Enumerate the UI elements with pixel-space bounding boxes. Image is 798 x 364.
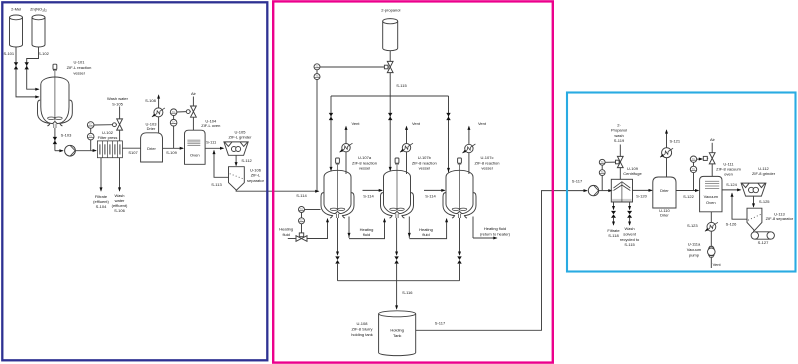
svg-text:ZIF-8 Slurry: ZIF-8 Slurry [351, 327, 372, 332]
vent vessel b [406, 127, 408, 174]
vent vessel a [345, 127, 347, 174]
svg-text:S-105: S-105 [112, 101, 123, 106]
svg-text:U-107b: U-107b [418, 155, 432, 160]
svg-text:Vacuum: Vacuum [687, 247, 702, 252]
svg-text:TC: TC [692, 158, 695, 161]
wire S-117 to panel 3 [416, 191, 587, 331]
svg-text:(return to heater): (return to heater) [480, 232, 511, 237]
svg-text:TC: TC [315, 65, 318, 68]
svg-text:S-114: S-114 [425, 193, 436, 198]
svg-text:Propanol: Propanol [611, 128, 627, 133]
svg-text:Holding: Holding [390, 327, 404, 332]
wire wash water effluent S-106 [119, 158, 121, 191]
svg-text:Filtrate: Filtrate [607, 228, 620, 233]
svg-text:holding tank: holding tank [351, 332, 373, 337]
instrument TC loop 2-propanol [314, 64, 320, 70]
svg-text:Air: Air [191, 91, 197, 96]
control valve S-115 [387, 61, 393, 67]
wire drop to vessel a [330, 96, 332, 171]
svg-text:Oven: Oven [190, 153, 200, 158]
svg-text:TC: TC [172, 121, 175, 124]
svg-text:oven: oven [724, 171, 733, 176]
svg-text:S-109: S-109 [166, 150, 177, 155]
svg-text:S-114: S-114 [296, 193, 307, 198]
svg-text:TC: TC [89, 135, 92, 138]
svg-text:U-107a: U-107a [358, 155, 372, 160]
svg-text:S107: S107 [128, 150, 138, 155]
svg-text:S-116: S-116 [402, 290, 413, 295]
svg-text:Vent: Vent [412, 121, 421, 126]
vent vessel c [468, 127, 470, 174]
wire separator to conveyor [753, 231, 755, 232]
valve drop c [446, 113, 450, 120]
svg-text:S-127: S-127 [758, 240, 769, 245]
svg-text:Vent: Vent [478, 121, 487, 126]
reactor U-107b ZIF-8 reaction vessel [395, 158, 399, 163]
wire S-112 grinder to separator [235, 155, 237, 165]
wire S-114 b to c [424, 189, 445, 191]
svg-text:S-117: S-117 [435, 320, 446, 325]
svg-text:S-103: S-103 [61, 132, 72, 137]
wire S-122 drier to vacuum oven [676, 190, 698, 192]
control valve air vacuum oven [709, 153, 715, 159]
svg-text:ZIF-8 reaction: ZIF-8 reaction [352, 160, 377, 165]
wire separator product to panel 2 (S-114) [236, 190, 318, 191]
svg-text:TC: TC [692, 168, 695, 171]
heating fluid return [472, 217, 474, 239]
wire S-125 grinder to separator [753, 196, 755, 207]
svg-text:TC: TC [315, 75, 318, 78]
reactor U-101 ZIF-L reaction vessel [53, 64, 57, 69]
svg-text:TC: TC [89, 124, 92, 127]
wire drop to vessel c [448, 96, 450, 172]
control valve air [191, 106, 197, 112]
instrument TC loop wash [599, 159, 605, 165]
panel border ZIF-8 reaction (magenta) [273, 1, 553, 362]
svg-text:S-115: S-115 [396, 83, 407, 88]
svg-text:S-117: S-117 [572, 178, 583, 183]
svg-text:ZIF-L oven: ZIF-L oven [201, 123, 220, 128]
heat exchanger on S-121 [662, 148, 672, 158]
svg-text:S-102: S-102 [38, 51, 49, 56]
svg-text:vessel: vessel [419, 166, 430, 171]
instrument TC loop heating [299, 207, 305, 213]
svg-text:Drier: Drier [147, 126, 156, 131]
svg-text:vessel: vessel [73, 70, 84, 75]
wire pump to centrifuge [599, 190, 612, 192]
svg-text:separator: separator [247, 178, 265, 183]
svg-text:S-113: S-113 [211, 182, 222, 187]
svg-text:pump: pump [689, 252, 700, 257]
svg-text:ZIF-L: ZIF-L [251, 173, 261, 178]
drier U-110 [653, 177, 676, 208]
panel border ZIF-8 finishing (cyan) [567, 93, 796, 272]
svg-text:2-MeI: 2-MeI [11, 6, 21, 11]
svg-text:Vacuum: Vacuum [704, 194, 719, 199]
svg-text:S-101: S-101 [3, 51, 14, 56]
svg-text:U-107c: U-107c [481, 155, 494, 160]
svg-text:2-propanol: 2-propanol [381, 7, 400, 12]
wire S-124 oven to grinder [722, 189, 740, 191]
instrument TC loop vacuum oven [690, 156, 696, 162]
wire S-111 oven to grinder [205, 147, 223, 149]
wire pump to filter press [75, 150, 96, 152]
separator U-106 ZIF-L separator [229, 167, 245, 191]
wire vessel outlets to collector S-116 [337, 218, 339, 255]
valve drop a [329, 113, 333, 120]
svg-text:S-104: S-104 [96, 204, 107, 209]
wire tank1 to reactor [16, 47, 39, 97]
svg-text:S-111: S-111 [206, 140, 217, 145]
svg-text:U-111a: U-111a [688, 242, 701, 247]
wire S-120 centrifuge to drier [633, 189, 652, 191]
svg-text:S-108: S-108 [145, 98, 156, 103]
svg-text:Filter press: Filter press [98, 135, 118, 140]
panel border ZIF-L (blue) [2, 2, 267, 360]
svg-text:ZIF-L grinder: ZIF-L grinder [229, 134, 253, 139]
svg-text:ZIF-8 reaction: ZIF-8 reaction [475, 160, 500, 165]
heat exchanger on S-123 [707, 222, 716, 231]
svg-text:TC: TC [300, 219, 303, 222]
svg-text:S-121: S-121 [669, 138, 680, 143]
svg-text:recycled to: recycled to [620, 237, 640, 242]
svg-text:fluid: fluid [363, 232, 370, 237]
control valve wash [617, 156, 623, 162]
svg-text:solvent: solvent [623, 232, 637, 237]
svg-text:ZIF-8 separator: ZIF-8 separator [766, 216, 794, 221]
wire S-109 drier to oven [163, 147, 184, 149]
heat exchanger on S-108 [154, 108, 163, 117]
svg-text:TC: TC [601, 161, 604, 164]
wire S107 filter press to drier [122, 147, 140, 149]
heating fluid b to c [408, 217, 410, 238]
svg-text:Drier: Drier [147, 146, 156, 151]
svg-text:S-114: S-114 [363, 193, 374, 198]
wire drier vapor S-121 [666, 148, 668, 177]
svg-text:S-122: S-122 [683, 194, 694, 199]
instrument TC loop oven [170, 109, 177, 116]
svg-text:S-119: S-119 [614, 138, 625, 143]
pump P-102 [588, 185, 598, 195]
svg-text:fluid: fluid [283, 232, 290, 237]
wire tank to valve [389, 51, 391, 62]
svg-text:vessel: vessel [481, 166, 492, 171]
svg-text:S-120: S-120 [636, 194, 647, 199]
svg-text:S-125: S-125 [759, 199, 770, 204]
svg-text:Tank: Tank [393, 333, 401, 338]
svg-text:wash: wash [614, 133, 623, 138]
svg-text:Heating fluid: Heating fluid [484, 226, 506, 231]
pump P-101 [65, 145, 76, 156]
svg-text:S-106: S-106 [114, 208, 125, 213]
svg-text:Oven: Oven [706, 200, 716, 205]
svg-text:vessel: vessel [359, 166, 370, 171]
wire S-113 recycle [214, 151, 229, 178]
heating fluid a to b [348, 217, 350, 238]
svg-text:ZIF-8 reaction: ZIF-8 reaction [412, 160, 437, 165]
svg-text:U-106: U-106 [250, 167, 262, 172]
valve on S-101 [14, 62, 18, 69]
svg-text:S-112: S-112 [241, 158, 252, 163]
svg-text:S-126: S-126 [726, 222, 737, 227]
wire S-123 vacuum oven to pump [710, 212, 712, 223]
wire wash solvent recycle [629, 202, 631, 210]
control valve wash water [117, 119, 123, 125]
reactor U-107c ZIF-8 reaction vessel [458, 158, 462, 163]
svg-text:TC: TC [172, 111, 175, 114]
wire reactor outlet S-103 [54, 128, 56, 151]
svg-text:S-124: S-124 [726, 182, 737, 187]
conveyor S-127 [751, 232, 758, 239]
valve on S-102 [25, 62, 29, 69]
wire S-116 down [396, 281, 398, 309]
svg-text:U-101: U-101 [74, 60, 86, 65]
reactor U-107a ZIF-8 reaction vessel [336, 158, 340, 163]
svg-text:Centrifuge: Centrifuge [623, 171, 642, 176]
wire tank2 to reactor [27, 47, 39, 89]
svg-text:S-118: S-118 [608, 233, 619, 238]
svg-text:Drier: Drier [660, 188, 669, 193]
svg-text:Wash: Wash [625, 226, 635, 231]
wire S-114 a to b [363, 189, 383, 191]
svg-text:TC: TC [601, 171, 604, 174]
separator U-113 ZIF-8 separator [747, 208, 762, 230]
wire drier vapor S-108 [158, 108, 160, 133]
svg-text:S-123: S-123 [687, 223, 698, 228]
svg-text:U-108: U-108 [357, 321, 369, 326]
wire filtrate S-118 [613, 202, 615, 210]
svg-text:Drier: Drier [660, 213, 669, 218]
svg-text:TC: TC [300, 208, 303, 211]
svg-text:ZIF-8 grinder: ZIF-8 grinder [752, 171, 776, 176]
svg-text:Vent: Vent [713, 262, 722, 267]
svg-text:Vent: Vent [351, 121, 360, 126]
instrument TC loop filter press [87, 122, 94, 129]
svg-text:S-115: S-115 [624, 242, 635, 247]
svg-text:Air: Air [710, 137, 716, 142]
svg-text:ZIF-L reaction: ZIF-L reaction [67, 65, 92, 70]
valve on reactor outlet [53, 137, 57, 144]
wire filtrate effluent S-104 [100, 158, 102, 191]
wire S-126 recycle [732, 193, 747, 219]
svg-text:fluid: fluid [422, 232, 429, 237]
valve drop b [388, 113, 392, 120]
